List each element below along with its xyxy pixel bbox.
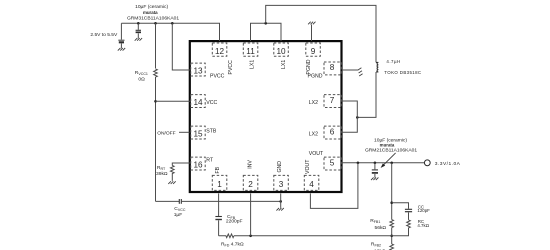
wire inductor to LX2 (357, 72, 376, 117)
resistor RFB2 (390, 244, 394, 250)
resistor RFD horizontal (219, 234, 234, 238)
svg-text:LX2: LX2 (309, 132, 318, 138)
resistor RC (392, 220, 411, 236)
svg-text:PVCC: PVCC (210, 74, 225, 80)
svg-text:2.5V to 5.5V: 2.5V to 5.5V (90, 32, 118, 38)
wire divider mid (391, 228, 393, 244)
wire divider upper (391, 163, 393, 220)
wire LX1 to inductor (266, 5, 376, 62)
svg-text:13: 13 (193, 66, 203, 75)
svg-text:LX2: LX2 (309, 100, 318, 106)
svg-text:3: 3 (279, 180, 284, 189)
svg-text:LX1: LX1 (250, 60, 256, 69)
pin label RT pin16 (206, 157, 214, 163)
pin label FB pin1 rotated (215, 166, 221, 173)
svg-text:PVCC: PVCC (228, 60, 234, 75)
label RFD (221, 241, 244, 247)
svg-text:ON/OFF: ON/OFF (157, 130, 175, 136)
svg-text:murata: murata (143, 10, 158, 15)
svg-text:15: 15 (193, 129, 203, 138)
wire pin 3 riser (280, 193, 282, 208)
resistor RRT (171, 166, 175, 181)
pin label VOUT pin5 (309, 151, 324, 157)
pin label STB pin15 (206, 129, 217, 135)
wire INV line (234, 235, 392, 237)
battery V1 (118, 23, 124, 48)
svg-text:VOUT: VOUT (305, 159, 311, 174)
wire to pin 14 (156, 100, 191, 102)
label CVCC (174, 206, 186, 218)
resistor RFB1 (390, 220, 394, 228)
pin 10 box (274, 43, 289, 56)
node VCC tap (154, 22, 157, 25)
pin label LX2 pin7 (309, 100, 318, 106)
wire pin 9 to ground (311, 25, 313, 42)
wire pin 4 route (310, 163, 358, 209)
pin 12 box (212, 43, 227, 56)
resistor RVCC (154, 69, 158, 77)
node VOUT cap junction (374, 162, 377, 165)
node PVCC tap (171, 22, 174, 25)
capacitor CVCC 1uF (179, 199, 280, 204)
ground pin9 (308, 22, 315, 25)
wire CC branch top (392, 203, 409, 209)
svg-text:GRM21CB11A106KA01: GRM21CB11A106KA01 (365, 147, 417, 153)
pin 4 box (304, 175, 319, 190)
svg-text:murata: murata (380, 142, 395, 147)
capacitor CIN 10uF (136, 22, 141, 38)
svg-text:7: 7 (330, 96, 335, 105)
wire VCC vertical upper (155, 23, 157, 68)
node pin2 junction (249, 235, 252, 238)
label COUT murata with arrow (365, 138, 417, 168)
wire pin 2 riser (250, 193, 252, 235)
pin 3 box (274, 175, 289, 190)
svg-text:9: 9 (311, 47, 316, 56)
svg-text:14: 14 (193, 98, 203, 107)
pin 2 box (243, 175, 257, 190)
wire ON/OFF to pin 15 (179, 131, 190, 133)
svg-text:RT: RT (206, 157, 214, 163)
pin label LX1 pin10 rotated (281, 60, 287, 69)
svg-text:RVCC1: RVCC1 (135, 70, 148, 76)
svg-text:8: 8 (330, 63, 335, 72)
svg-text:5: 5 (330, 158, 335, 167)
svg-text:120pF: 120pF (417, 208, 430, 213)
pin 9 box (306, 43, 321, 56)
pin 16 box (191, 157, 206, 170)
pin label PGND pin8 (308, 74, 323, 80)
svg-text:CVCC: CVCC (174, 206, 186, 212)
wire VCC vertical lower (155, 77, 157, 201)
pin label VCC pin14 (206, 100, 217, 106)
pin 11 box (243, 43, 257, 56)
capacitor CFB 2200pF (215, 217, 222, 236)
label ON/OFF (157, 130, 175, 136)
node INV junction (390, 235, 393, 238)
svg-text:STB: STB (206, 129, 217, 135)
node VOUT pin4 junction (357, 162, 360, 165)
svg-text:2200pF: 2200pF (226, 219, 243, 225)
svg-text:56kΩ: 56kΩ (375, 225, 387, 231)
node pin14 junction (154, 100, 157, 103)
inductor L1 4.7uH (376, 62, 378, 72)
pin label PVCC pin12 rotated (228, 60, 234, 75)
pin label VOUT pin4 rotated (305, 159, 311, 174)
svg-text:VCC: VCC (206, 100, 217, 106)
pin 5 box (324, 157, 341, 170)
svg-text:3.3V/1.0A: 3.3V/1.0A (435, 161, 461, 167)
pin label INV pin2 rotated (247, 160, 253, 169)
svg-text:4.7µH: 4.7µH (386, 59, 400, 64)
label CIN murata (127, 4, 179, 22)
wire supply rail to pin 12 (121, 23, 219, 41)
svg-text:GRM31CB11A106KA01: GRM31CB11A106KA01 (127, 16, 179, 22)
pin 15 box (191, 126, 206, 139)
ground RRT (168, 181, 175, 184)
pin 8 box (324, 62, 341, 75)
svg-text:16: 16 (193, 160, 203, 169)
IC U1 body (190, 41, 342, 192)
wire LX1 bridge pins 11 10 (251, 23, 282, 41)
node LX2 junction (356, 116, 359, 119)
svg-text:2: 2 (248, 180, 253, 189)
svg-text:4.7kΩ: 4.7kΩ (417, 223, 429, 228)
svg-text:GND: GND (277, 161, 283, 173)
svg-text:FB: FB (215, 166, 221, 173)
pin label GND pin3 rotated (277, 161, 283, 173)
node LX1 junction (264, 22, 267, 25)
ground pin8 (358, 68, 363, 76)
svg-text:RFD 4.7kΩ: RFD 4.7kΩ (221, 241, 244, 247)
svg-text:10: 10 (276, 47, 286, 56)
label RVCC (135, 70, 148, 82)
pin label PVCC pin13 (210, 74, 225, 80)
pin 14 box (191, 95, 206, 108)
ground battery (118, 48, 125, 51)
label 3.3V/1.0A (435, 161, 461, 167)
wire LX2 bridge pins 7 6 (342, 101, 358, 132)
wire to pin 13 (172, 23, 190, 70)
svg-text:6: 6 (330, 127, 335, 136)
svg-text:39kΩ: 39kΩ (156, 171, 168, 177)
node CC branch junction (390, 201, 393, 204)
ground CIN (135, 38, 142, 41)
svg-text:INV: INV (247, 160, 253, 169)
terminal VOUT circle (424, 160, 430, 166)
label 2.5V to 5.5V (90, 32, 118, 38)
pin label LX1 pin11 rotated (250, 60, 256, 69)
wire VOUT pin 5 to terminal (342, 162, 425, 164)
svg-text:1: 1 (217, 180, 222, 189)
label CFB (226, 214, 243, 225)
svg-text:RRT: RRT (157, 165, 166, 171)
svg-text:4: 4 (309, 180, 314, 189)
label CC (417, 204, 430, 213)
svg-text:12: 12 (215, 47, 225, 56)
svg-text:0Ω: 0Ω (138, 76, 145, 82)
svg-text:10µF (ceramic): 10µF (ceramic) (135, 4, 168, 10)
label RC (417, 219, 429, 228)
pin label LX2 pin6 (309, 132, 318, 138)
svg-text:VOUT: VOUT (309, 151, 324, 157)
ground pin3 (276, 208, 283, 211)
label RRT (156, 165, 168, 177)
svg-text:PGND: PGND (306, 59, 312, 74)
pin 13 box (191, 63, 206, 76)
node pin3 ground junction (279, 200, 282, 203)
svg-text:RFB1: RFB1 (370, 218, 380, 224)
label RFB1 (370, 218, 386, 231)
pin label PGND pin9 rotated (306, 59, 312, 74)
wire pin 16 to RRT (172, 163, 190, 166)
wire CVCC line (156, 200, 180, 202)
node VOUT divider junction (390, 162, 393, 165)
wire pin 8 to ground (342, 69, 359, 71)
svg-text:1µF: 1µF (174, 212, 183, 218)
pin 1 box (212, 175, 227, 190)
capacitor COUT 10uF (372, 163, 378, 178)
svg-text:TOKO DB3518C: TOKO DB3518C (384, 70, 421, 75)
svg-text:RFB2: RFB2 (371, 241, 381, 247)
wire pin 1 riser (218, 193, 220, 216)
label RFB2 (371, 241, 386, 250)
pin 6 box (324, 126, 341, 139)
ground COUT (371, 178, 378, 181)
svg-text:LX1: LX1 (281, 60, 287, 69)
label L1 (384, 59, 421, 75)
capacitor CC 120pF (405, 209, 412, 220)
pin 7 box (324, 95, 341, 108)
svg-text:11: 11 (246, 47, 255, 56)
